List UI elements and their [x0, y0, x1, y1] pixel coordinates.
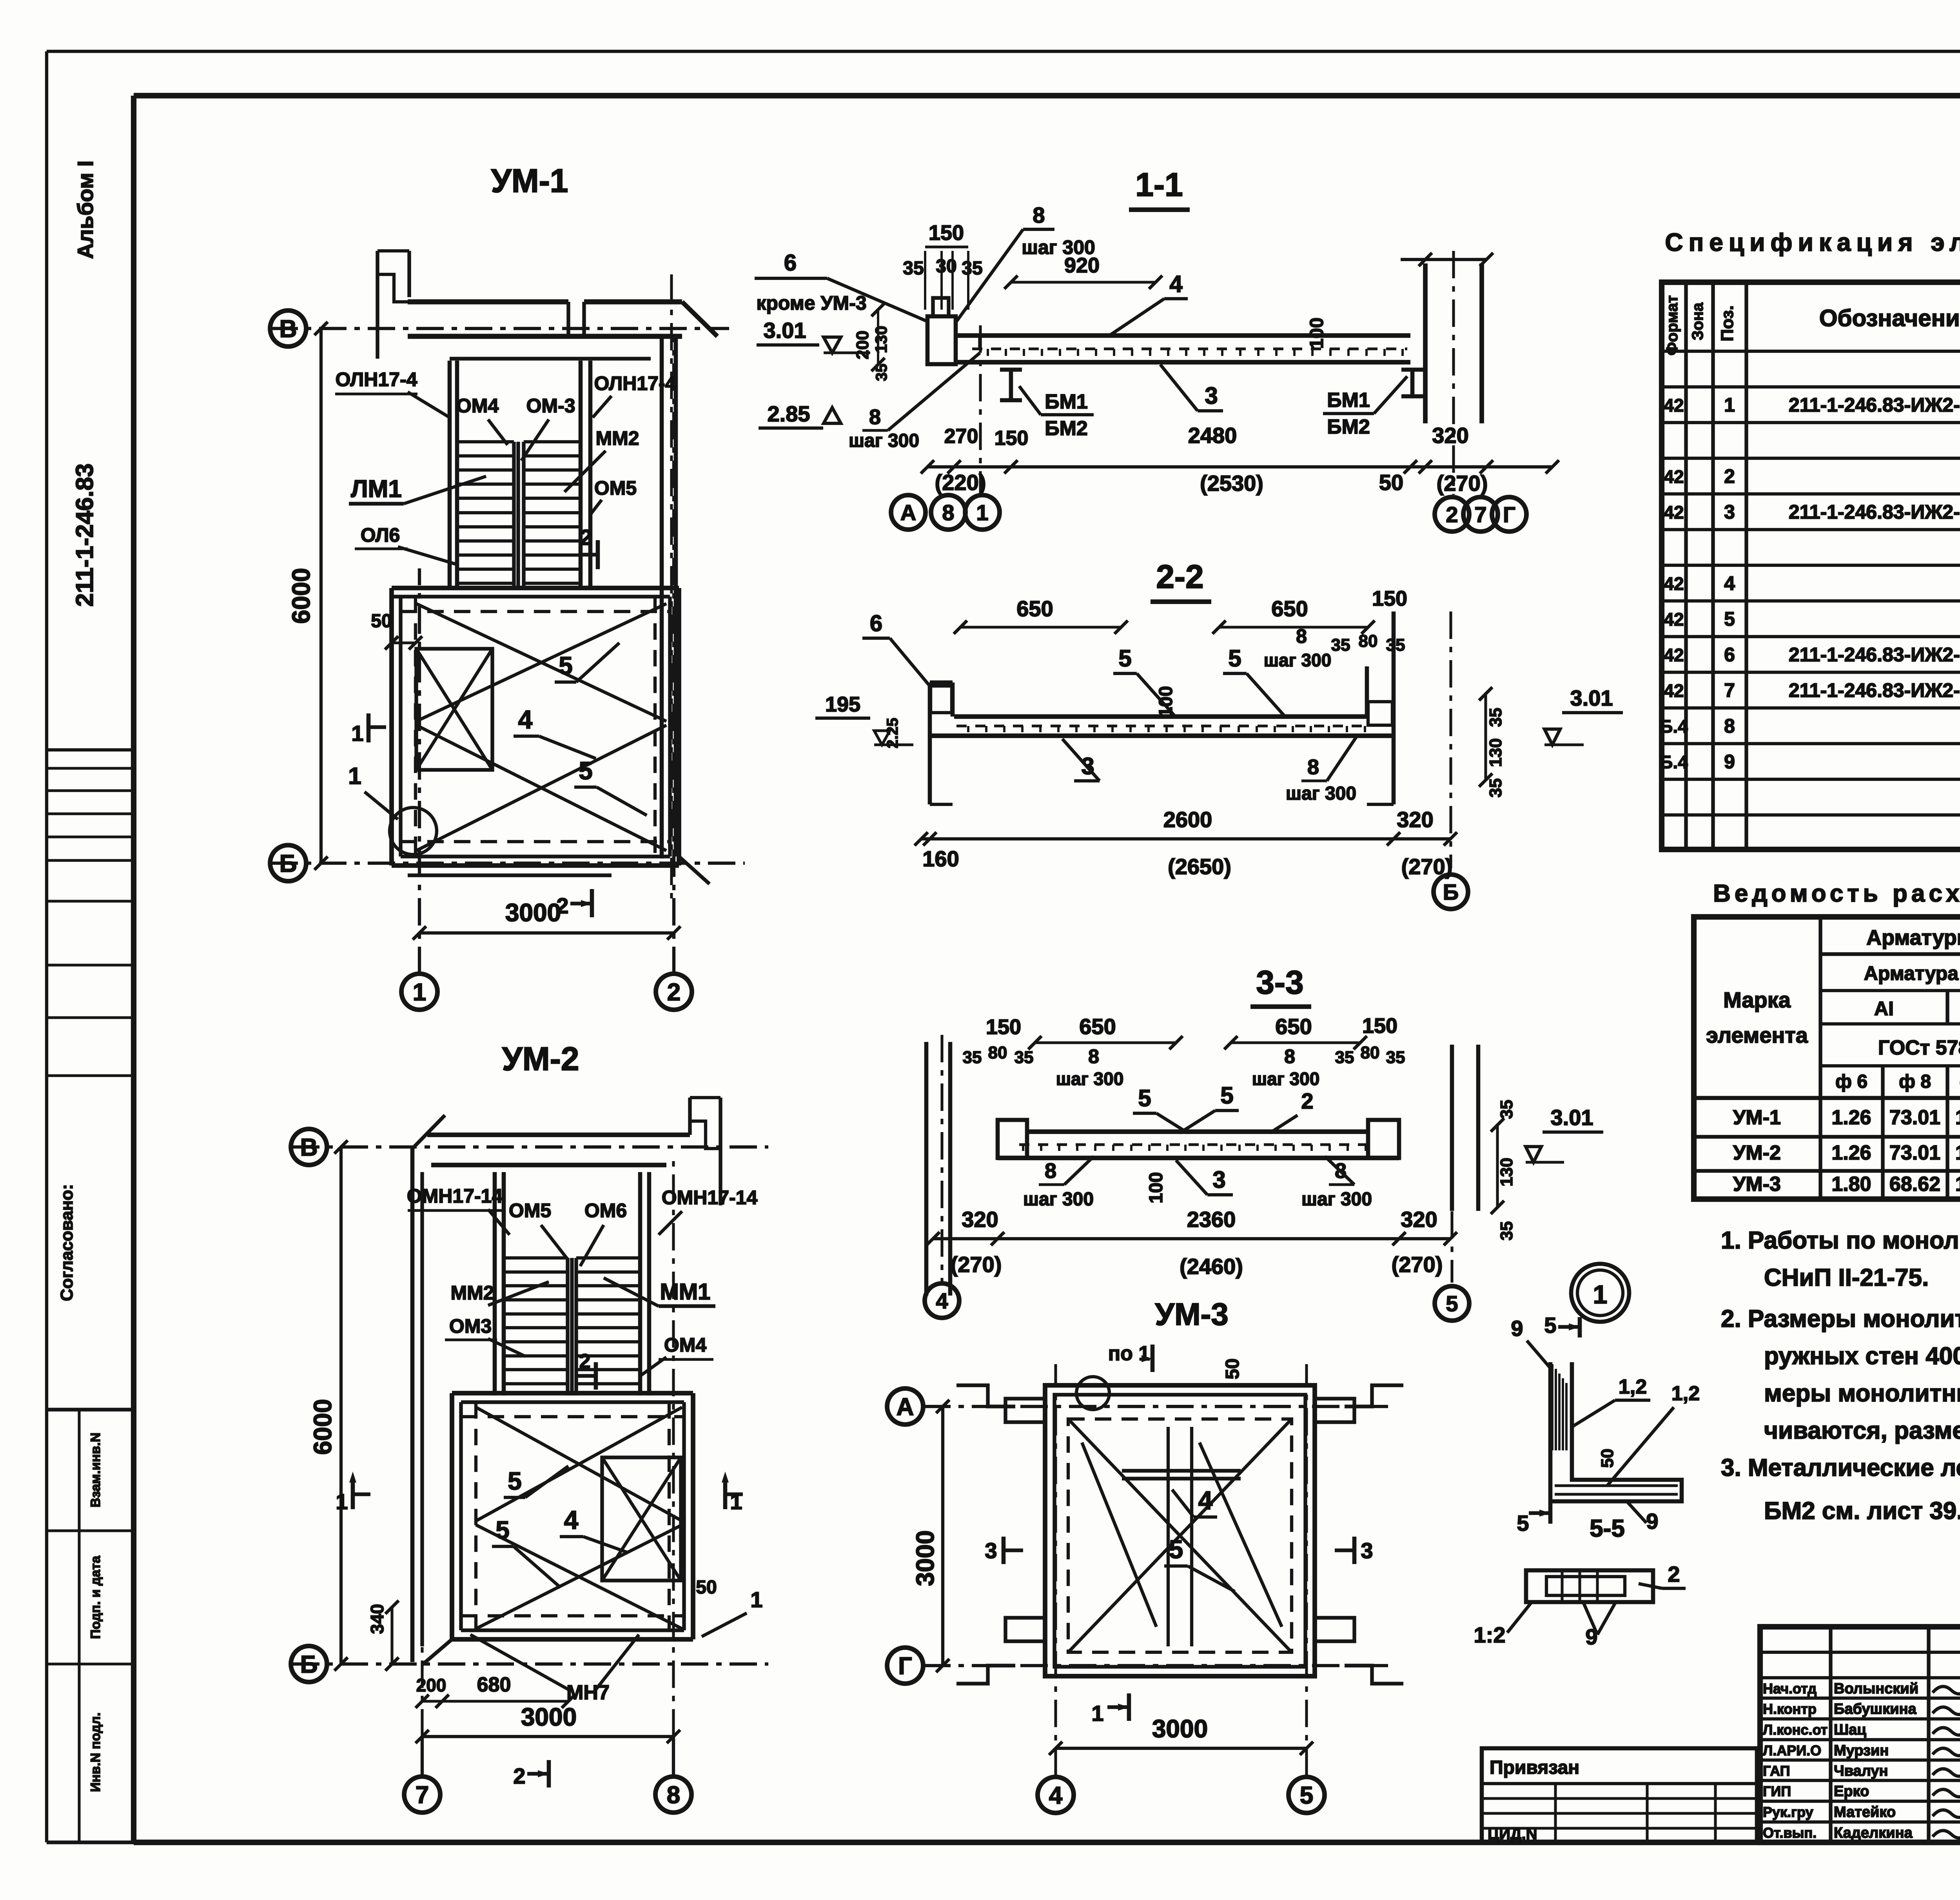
- svg-text:В: В: [300, 1134, 318, 1161]
- svg-text:3000: 3000: [911, 1530, 939, 1586]
- main drawing frame: [134, 93, 1960, 98]
- svg-text:5: 5: [1517, 1511, 1529, 1535]
- svg-text:БМ1: БМ1: [1327, 389, 1370, 412]
- svg-text:Б.4: Б.4: [1660, 716, 1688, 737]
- svg-text:80: 80: [1361, 1043, 1380, 1062]
- svg-text:13.64: 13.64: [1955, 1106, 1960, 1129]
- svg-text:8: 8: [869, 405, 881, 429]
- title block signature grid: [1760, 1651, 1960, 1654]
- svg-text:Волынский: Волынский: [1834, 1680, 1918, 1697]
- svg-text:35: 35: [1497, 1100, 1516, 1119]
- svg-text:42: 42: [1664, 609, 1684, 630]
- svg-text:(270): (270): [1401, 854, 1453, 879]
- svg-text:1-1: 1-1: [1135, 166, 1183, 203]
- axis 4 vertical UM-3: [1054, 1364, 1057, 1776]
- 2-2 slab: [954, 714, 1368, 719]
- svg-text:2: 2: [667, 979, 681, 1006]
- 3-3 right wall band: [1450, 1045, 1454, 1211]
- UM-1 shaft brace X lower: [416, 725, 666, 851]
- svg-text:680: 680: [477, 1673, 511, 1696]
- UM-2 shaft walls: [452, 1391, 693, 1396]
- svg-text:35: 35: [1014, 1048, 1034, 1067]
- svg-text:2480: 2480: [1188, 423, 1237, 448]
- svg-text:6000: 6000: [287, 568, 315, 624]
- svg-text:100: 100: [1146, 1172, 1167, 1203]
- dim 200 680 UM-2: [422, 1700, 568, 1702]
- steel table grid: [1694, 917, 1960, 1199]
- svg-text:1,2: 1,2: [1671, 1382, 1700, 1405]
- svg-text:ОМ3: ОМ3: [449, 1315, 492, 1337]
- svg-text:БМ2: БМ2: [1045, 417, 1088, 440]
- UM-1 stair right wall: [579, 361, 583, 588]
- svg-text:1: 1: [413, 979, 426, 1006]
- UM-2 brace X lower: [476, 1525, 682, 1629]
- svg-text:ГАП: ГАП: [1763, 1763, 1790, 1779]
- svg-text:Ерко: Ерко: [1834, 1783, 1869, 1800]
- svg-text:БМ2 см. лист 39.: БМ2 см. лист 39.: [1764, 1497, 1960, 1524]
- dim 3000 UM-2: [422, 1735, 673, 1738]
- svg-text:ОМН17-14: ОМН17-14: [407, 1185, 503, 1207]
- svg-text:ОЛН17-4: ОЛН17-4: [594, 372, 676, 394]
- svg-text:4: 4: [1049, 1782, 1063, 1809]
- svg-text:ф 8: ф 8: [1899, 1071, 1931, 1092]
- svg-text:320: 320: [1401, 1207, 1437, 1232]
- svg-text:шаг 300: шаг 300: [1301, 1189, 1372, 1210]
- svg-text:195: 195: [825, 693, 860, 716]
- svg-text:2: 2: [1668, 1562, 1680, 1586]
- svg-text:1: 1: [1091, 1701, 1103, 1726]
- svg-text:1: 1: [730, 1489, 742, 1514]
- svg-text:8: 8: [1284, 1045, 1295, 1067]
- svg-text:шаг 300: шаг 300: [1252, 1069, 1320, 1089]
- svg-text:по 1: по 1: [1108, 1342, 1150, 1365]
- svg-text:9: 9: [1646, 1509, 1658, 1533]
- svg-text:4: 4: [1724, 572, 1735, 594]
- svg-text:шаг 300: шаг 300: [1023, 1189, 1094, 1210]
- svg-text:ф 6: ф 6: [1835, 1071, 1867, 1092]
- 3-3 left wall band: [924, 1042, 929, 1296]
- svg-text:8: 8: [1307, 755, 1319, 779]
- svg-text:8: 8: [1296, 625, 1307, 647]
- section marks 3 UM-3: [1002, 1537, 1006, 1564]
- svg-text:1.26: 1.26: [1831, 1141, 1871, 1164]
- svg-text:5: 5: [1724, 608, 1735, 630]
- 3-3 slab rebar ticks: [1022, 1145, 1024, 1151]
- outer page border: [47, 50, 1960, 53]
- svg-text:50: 50: [1598, 1449, 1617, 1468]
- svg-text:42: 42: [1664, 573, 1684, 594]
- svg-text:4: 4: [564, 1505, 579, 1534]
- svg-text:ММ1: ММ1: [660, 1279, 711, 1305]
- svg-text:211-1-246.83-ИЖ2-0020: 211-1-246.83-ИЖ2-0020: [1789, 501, 1960, 523]
- svg-text:1.26: 1.26: [1831, 1106, 1871, 1129]
- svg-text:(220): (220): [935, 470, 986, 495]
- axis 7 vertical: [421, 1737, 424, 1775]
- UM-2 top wall: [427, 1132, 690, 1137]
- svg-text:Г: Г: [898, 1653, 912, 1680]
- svg-text:50: 50: [371, 611, 392, 632]
- svg-text:СНиП II-21-75.: СНиП II-21-75.: [1764, 1264, 1929, 1291]
- svg-text:Б: Б: [279, 850, 297, 877]
- svg-text:В: В: [279, 316, 297, 343]
- svg-text:БМ2: БМ2: [1327, 416, 1370, 438]
- svg-text:2. Размеры монолитных участ: 2. Размеры монолитных участков даны для …: [1721, 1305, 1960, 1332]
- svg-text:3: 3: [985, 1538, 997, 1563]
- dim 6000 UM-2: [339, 1147, 343, 1664]
- UM-3 brace verticals: [1167, 1427, 1170, 1646]
- svg-text:Альбом I: Альбом I: [73, 160, 98, 259]
- svg-text:5: 5: [579, 757, 593, 785]
- axis circle V: [270, 310, 306, 347]
- svg-text:5: 5: [1544, 1313, 1556, 1337]
- svg-text:35: 35: [1386, 1048, 1405, 1067]
- svg-text:2600: 2600: [1163, 807, 1212, 832]
- svg-text:шаг 300: шаг 300: [1286, 783, 1356, 804]
- svg-text:ОМ5: ОМ5: [594, 477, 637, 499]
- svg-text:7: 7: [1474, 502, 1486, 527]
- svg-text:211-1-246.83: 211-1-246.83: [71, 463, 98, 606]
- svg-text:6: 6: [870, 611, 882, 636]
- dim 3000 bottom UM-3: [1056, 1747, 1307, 1750]
- 2-2 bottom dim: [921, 837, 1450, 840]
- svg-text:320: 320: [1397, 807, 1433, 832]
- svg-text:А: А: [897, 1394, 914, 1421]
- margin stamp boxes: [47, 748, 134, 751]
- svg-text:Инв.N подл.: Инв.N подл.: [88, 1713, 103, 1792]
- svg-text:7: 7: [416, 1782, 429, 1809]
- svg-text:7: 7: [1724, 679, 1735, 701]
- svg-text:35: 35: [1386, 635, 1405, 655]
- svg-text:Формат: Формат: [1664, 295, 1681, 355]
- 2-2 slab rebar ticks: [967, 726, 969, 732]
- svg-text:1: 1: [348, 763, 361, 789]
- UM-1 corner detail circle: [390, 808, 437, 855]
- svg-text:ОМ5: ОМ5: [509, 1200, 551, 1221]
- UM-1 outer right wall: [660, 337, 664, 858]
- svg-text:Матейко: Матейко: [1834, 1804, 1896, 1820]
- 1-1 dim 920: [1011, 281, 1156, 283]
- svg-text:1: 1: [976, 500, 988, 525]
- UM-2 wall break symbol right: [719, 1098, 722, 1205]
- UM-2 stair flights: [504, 1256, 568, 1259]
- svg-text:3-3: 3-3: [1256, 964, 1303, 1001]
- svg-text:6000: 6000: [309, 1399, 337, 1455]
- svg-text:2: 2: [1446, 502, 1458, 527]
- UM-1 top wall: [408, 299, 568, 305]
- svg-text:2360: 2360: [1187, 1207, 1236, 1232]
- axis line B UM-2: [292, 1662, 768, 1666]
- 1-1 axis 1 dashdot: [979, 325, 982, 495]
- 3-3 right upstand: [1368, 1120, 1399, 1158]
- svg-text:3: 3: [1361, 1538, 1373, 1563]
- svg-text:35: 35: [962, 258, 982, 279]
- UM-1 shaft walls: [392, 586, 679, 590]
- svg-text:ГИП: ГИП: [1763, 1783, 1791, 1799]
- svg-text:ОЛН17-4: ОЛН17-4: [336, 368, 417, 390]
- svg-text:320: 320: [1432, 423, 1468, 448]
- svg-text:ОМ6: ОМ6: [584, 1200, 627, 1221]
- svg-text:ЦИД.N: ЦИД.N: [1488, 1826, 1537, 1843]
- svg-text:6: 6: [784, 250, 797, 276]
- svg-text:чиваются, размеры даны в с: чиваются, размеры даны в скобках.: [1764, 1417, 1960, 1444]
- svg-text:1.80: 1.80: [1831, 1173, 1871, 1196]
- svg-text:УМ-1: УМ-1: [1733, 1106, 1781, 1129]
- svg-text:2: 2: [556, 893, 568, 918]
- svg-text:5-5: 5-5: [1590, 1515, 1625, 1542]
- svg-text:Л.конс.от: Л.конс.от: [1763, 1722, 1828, 1738]
- UM-3 inner dashed rect: [1068, 1419, 1292, 1652]
- svg-text:Обозначение: Обозначение: [1819, 305, 1960, 331]
- axis 1 vertical: [418, 568, 421, 974]
- svg-text:320: 320: [962, 1207, 998, 1232]
- svg-text:150: 150: [1362, 1014, 1397, 1038]
- UM-1 shaft brace X upper: [416, 604, 666, 721]
- svg-text:2.25: 2.25: [884, 718, 901, 748]
- axis circle V UM-2: [291, 1129, 327, 1165]
- svg-text:Марка: Марка: [1723, 987, 1791, 1012]
- svg-text:35: 35: [1486, 708, 1505, 727]
- spec table grid: [1662, 282, 1960, 849]
- axis circle A UM-3: [887, 1388, 923, 1425]
- 2-2 top dims: [960, 626, 1121, 628]
- svg-text:Б.4: Б.4: [1660, 752, 1688, 772]
- svg-text:100: 100: [1307, 318, 1327, 349]
- axis circle G UM-3: [887, 1648, 923, 1684]
- svg-text:Л.АРИ.О: Л.АРИ.О: [1763, 1742, 1821, 1758]
- svg-text:ЛМ1: ЛМ1: [351, 475, 402, 503]
- axis 8 vertical: [672, 1737, 675, 1775]
- dim 3000 UM-1: [419, 931, 674, 935]
- UM-1 stair flights: [457, 440, 514, 443]
- svg-text:УМ-2: УМ-2: [502, 1040, 579, 1077]
- dim 6000 UM-1: [319, 328, 323, 863]
- svg-text:(2460): (2460): [1180, 1254, 1243, 1279]
- UM-2 left outer wall: [410, 1149, 415, 1662]
- 2-2 right vert dims: [1484, 694, 1487, 780]
- svg-text:650: 650: [1275, 1014, 1312, 1039]
- svg-text:меры монолитных участков со: меры монолитных участков соответственно …: [1764, 1380, 1960, 1407]
- UM-1 wall break symbol: [376, 251, 379, 359]
- svg-text:Каделкина: Каделкина: [1834, 1825, 1913, 1841]
- svg-text:1: 1: [750, 1587, 762, 1612]
- svg-text:3: 3: [1205, 383, 1218, 409]
- svg-text:50: 50: [1222, 1358, 1243, 1379]
- svg-text:35: 35: [963, 1048, 982, 1067]
- svg-text:80: 80: [988, 1043, 1007, 1062]
- svg-text:8: 8: [1088, 1045, 1099, 1067]
- dim 3000 vertical UM-3: [941, 1406, 944, 1666]
- svg-text:4: 4: [936, 1288, 948, 1313]
- 2-2 axis B: [1449, 612, 1452, 868]
- svg-text:650: 650: [1016, 596, 1053, 621]
- svg-text:шаг 300: шаг 300: [849, 430, 919, 451]
- svg-text:160: 160: [922, 846, 959, 871]
- svg-text:Шац: Шац: [1834, 1722, 1866, 1738]
- svg-text:ОЛ6: ОЛ6: [361, 524, 400, 546]
- svg-text:УМ-1: УМ-1: [491, 162, 568, 199]
- UM-2 inner rect with X: [602, 1457, 681, 1581]
- section mark 2 bottom: [590, 889, 594, 917]
- axis circle 8: [655, 1777, 691, 1813]
- svg-text:150: 150: [995, 427, 1029, 450]
- svg-text:5: 5: [1300, 1782, 1313, 1809]
- svg-text:42: 42: [1664, 395, 1684, 416]
- svg-text:68.62: 68.62: [1889, 1173, 1940, 1196]
- svg-text:3000: 3000: [1152, 1715, 1208, 1743]
- axis circle 5 UM-3: [1289, 1777, 1325, 1813]
- svg-text:80: 80: [1359, 632, 1378, 651]
- svg-text:А: А: [900, 500, 916, 525]
- svg-text:шаг 300: шаг 300: [1056, 1069, 1124, 1089]
- svg-text:650: 650: [1079, 1014, 1116, 1039]
- axis 2 vertical: [672, 337, 675, 974]
- 2-2 left wall: [928, 682, 932, 804]
- svg-text:ОМ4: ОМ4: [664, 1334, 707, 1356]
- 1-1 right I-beam: [1401, 368, 1423, 372]
- svg-text:Б: Б: [300, 1651, 318, 1678]
- axis circle 2: [656, 974, 692, 1010]
- svg-text:1:2: 1:2: [1474, 1622, 1506, 1647]
- svg-text:(2530): (2530): [1200, 471, 1263, 495]
- 1-1 slab: [954, 333, 1410, 338]
- svg-text:1. Работы по монолитным уч: 1. Работы по монолитным участкам произво…: [1721, 1227, 1960, 1254]
- svg-text:2: 2: [513, 1764, 525, 1788]
- svg-text:650: 650: [1271, 596, 1308, 621]
- axis circle 1: [401, 974, 437, 1010]
- svg-text:5: 5: [1220, 1082, 1233, 1109]
- detail L-angle 5-5: [1550, 1362, 1682, 1501]
- UM-3 corner stubs: [1005, 1399, 1045, 1422]
- svg-text:Поз.: Поз.: [1718, 305, 1737, 341]
- svg-text:8: 8: [1033, 203, 1045, 227]
- svg-text:73.01: 73.01: [1889, 1106, 1940, 1129]
- svg-text:42: 42: [1664, 466, 1684, 487]
- 2-2 right wall: [1365, 666, 1369, 717]
- svg-text:Б: Б: [1443, 880, 1459, 904]
- svg-text:150: 150: [986, 1015, 1021, 1039]
- svg-text:1: 1: [351, 721, 363, 746]
- 3-3 right vert dims: [1496, 1125, 1499, 1207]
- svg-text:ММ2: ММ2: [595, 427, 639, 449]
- svg-text:1: 1: [1593, 1280, 1608, 1309]
- 1-1 bottom dim line: [927, 465, 1552, 468]
- svg-text:ружных стен 400 мм. При то: ружных стен 400 мм. При толщине стен 350…: [1764, 1343, 1960, 1370]
- svg-text:БМ1: БМ1: [1045, 390, 1088, 413]
- svg-text:2: 2: [1724, 465, 1735, 487]
- svg-text:Спецификация элементов монол: Спецификация элементов монолитных участк…: [1665, 228, 1960, 256]
- svg-text:Г: Г: [1503, 502, 1515, 527]
- 1-1 axis circles bottom: [891, 495, 926, 530]
- detail 5-5 bottom mark: [1529, 1511, 1550, 1515]
- svg-text:УМ-3: УМ-3: [1155, 1297, 1229, 1332]
- svg-text:2-2: 2-2: [1156, 558, 1203, 595]
- axis circle 4 UM-3: [1038, 1777, 1074, 1813]
- UM-1 shaft dashed inner lines: [414, 597, 417, 857]
- axis line V: [270, 327, 729, 330]
- svg-text:5: 5: [508, 1467, 522, 1495]
- svg-text:5: 5: [559, 651, 573, 680]
- svg-text:ОМ4: ОМ4: [456, 395, 499, 417]
- svg-text:35: 35: [1486, 779, 1505, 798]
- svg-text:3.01: 3.01: [1551, 1105, 1593, 1130]
- 3-3 axes: [940, 1035, 943, 1282]
- svg-text:13.64: 13.64: [1955, 1141, 1960, 1164]
- svg-text:УМ-2: УМ-2: [1733, 1141, 1781, 1164]
- axis line A UM-3: [923, 1405, 1396, 1408]
- svg-text:150: 150: [1372, 587, 1407, 610]
- svg-text:5: 5: [1138, 1085, 1151, 1111]
- svg-text:ММ2: ММ2: [450, 1282, 494, 1304]
- svg-text:3.01: 3.01: [1570, 686, 1613, 710]
- 1-1 left I-beam: [1000, 368, 1022, 372]
- svg-text:270: 270: [944, 425, 978, 448]
- UM-2 stair walls: [493, 1172, 497, 1396]
- UM-2 shaft dashed inner: [474, 1402, 477, 1630]
- svg-text:3. Металлические лестницы ог: 3. Металлические лестницы ограждения и б…: [1721, 1454, 1960, 1481]
- 3-3 left upstand: [998, 1120, 1027, 1158]
- svg-text:ГОСт 5781- 82: ГОСт 5781- 82: [1878, 1036, 1960, 1059]
- svg-text:3000: 3000: [521, 1703, 577, 1731]
- 1-1 slab rebar ticks: [987, 349, 989, 356]
- UM-3 brace X: [1068, 1419, 1292, 1652]
- UM-1 stair left wall: [448, 361, 452, 588]
- UM-1 bottom corner chamfer: [679, 857, 710, 884]
- svg-text:4: 4: [518, 705, 533, 734]
- UM-3 outer walls: [1045, 1385, 1315, 1676]
- svg-text:5: 5: [495, 1516, 510, 1544]
- svg-text:Арматура класса: Арматура класса: [1864, 962, 1960, 984]
- svg-text:8: 8: [667, 1782, 680, 1809]
- svg-text:6: 6: [1724, 644, 1735, 666]
- svg-text:2: 2: [579, 1350, 591, 1373]
- svg-text:200: 200: [416, 1675, 446, 1695]
- svg-text:4: 4: [1198, 1486, 1213, 1515]
- detail 1:2 bar: [1526, 1570, 1653, 1602]
- svg-text:УМ-3: УМ-3: [1733, 1173, 1781, 1196]
- svg-text:3.01: 3.01: [764, 318, 806, 343]
- svg-text:Согласовано:: Согласовано:: [57, 1184, 76, 1301]
- UM-3 corner circle: [1076, 1377, 1109, 1410]
- svg-text:Арматурные изделия: Арматурные изделия: [1866, 926, 1960, 949]
- svg-text:150: 150: [929, 221, 964, 245]
- svg-text:35: 35: [903, 258, 924, 279]
- svg-text:МН7: МН7: [566, 1681, 610, 1704]
- privyazan table: [1482, 1748, 1757, 1842]
- detail circle 1: [1571, 1264, 1629, 1322]
- svg-text:ОМ-3: ОМ-3: [526, 395, 575, 417]
- svg-text:42: 42: [1664, 502, 1684, 523]
- svg-text:9: 9: [1724, 751, 1735, 773]
- svg-text:42: 42: [1664, 681, 1684, 701]
- svg-text:Мурзин: Мурзин: [1834, 1742, 1889, 1759]
- svg-text:4: 4: [1169, 271, 1183, 297]
- svg-text:5: 5: [1118, 645, 1131, 671]
- section mark 2 UM-2 stair: [594, 1362, 598, 1390]
- axis circle B: [270, 845, 306, 881]
- svg-text:200: 200: [853, 330, 872, 359]
- svg-text:35: 35: [1331, 635, 1350, 655]
- svg-text:211-1-246.83-ИЖ2-0030: 211-1-246.83-ИЖ2-0030: [1789, 644, 1960, 666]
- svg-text:3: 3: [1212, 1167, 1225, 1193]
- UM-2 left wall chamfer: [412, 1115, 445, 1149]
- svg-text:кроме УМ-3: кроме УМ-3: [756, 292, 866, 314]
- svg-text:Взам.инв.N: Взам.инв.N: [88, 1433, 103, 1508]
- svg-text:5: 5: [1446, 1291, 1458, 1316]
- section mark 1 left: [367, 713, 371, 742]
- axis line V UM-2: [292, 1145, 768, 1149]
- svg-text:8: 8: [942, 500, 954, 525]
- svg-text:2: 2: [1301, 1089, 1313, 1113]
